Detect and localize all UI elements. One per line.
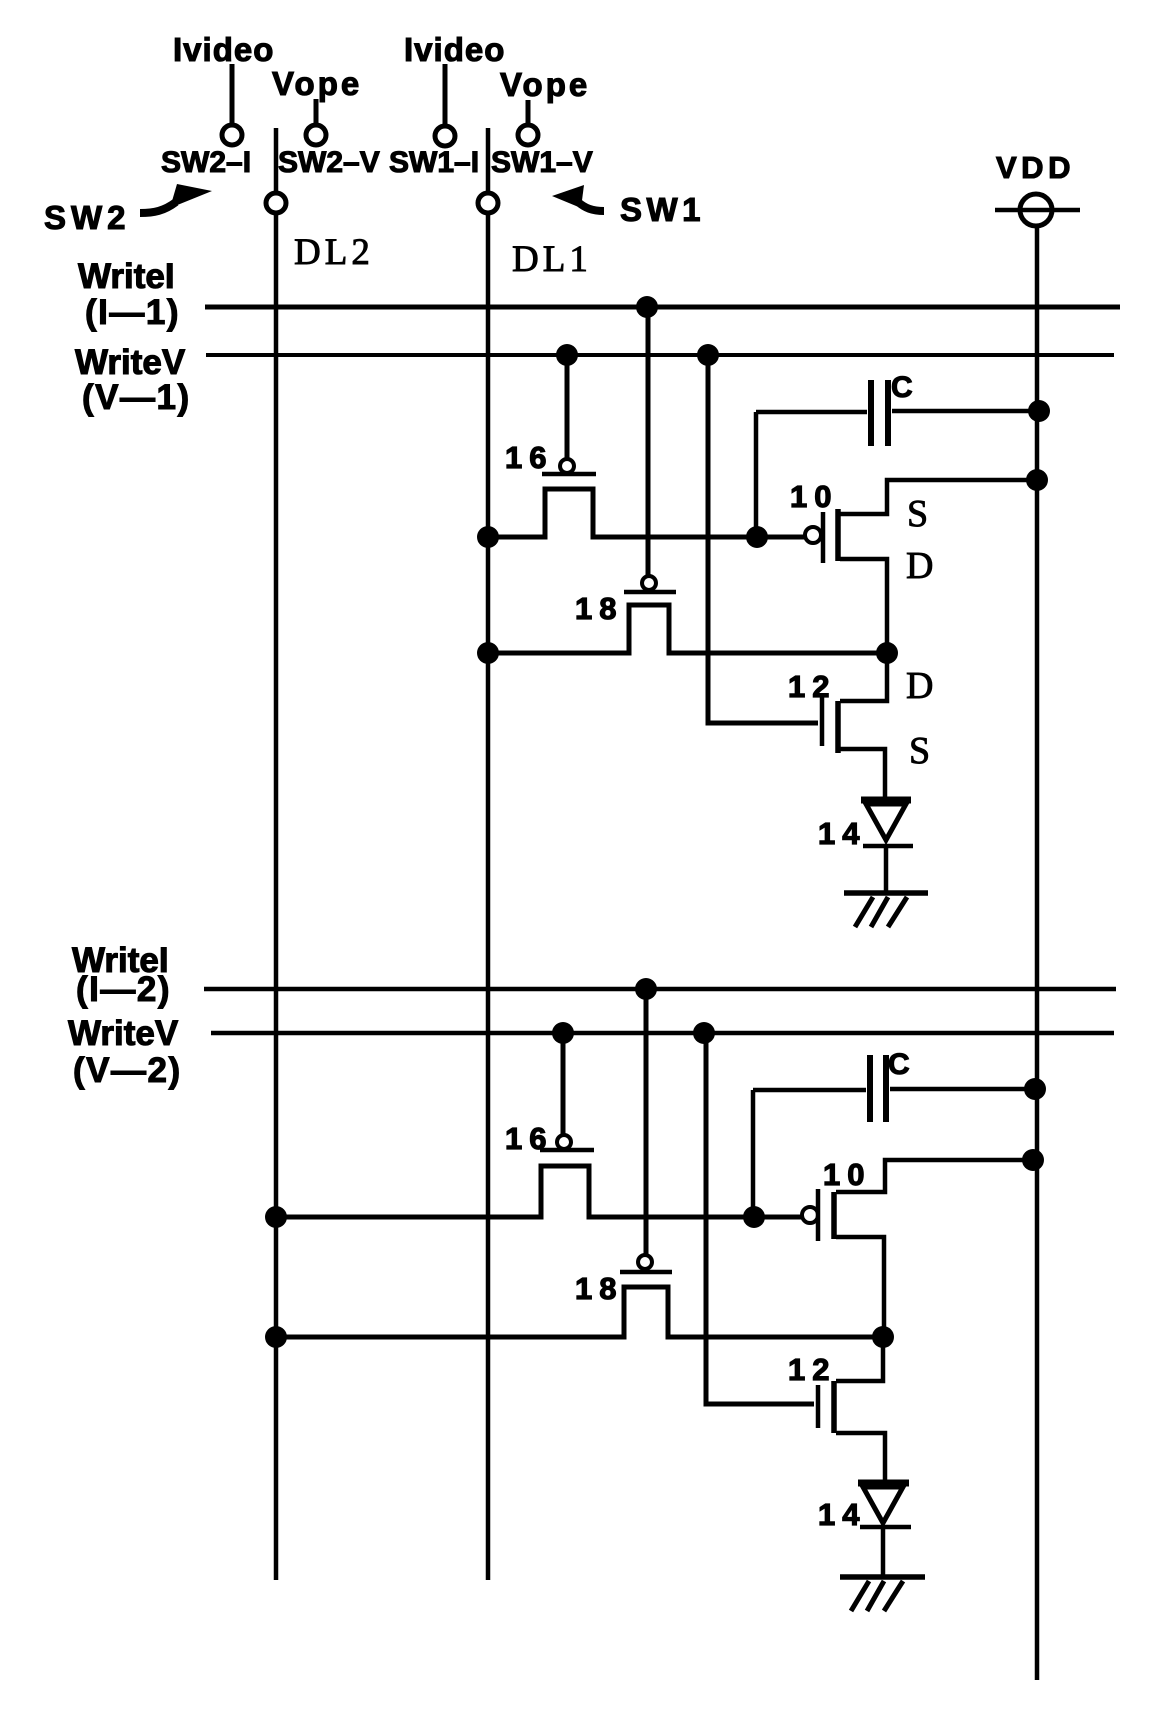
svg-text:WriteI: WriteI	[78, 257, 175, 296]
wire WriteV to gate of 12 (row1)	[708, 355, 818, 723]
wire drain of 10 down to node (row1)	[840, 559, 887, 653]
wire node B row2: DL2 through 18 channel to drain node	[277, 1287, 883, 1337]
transistor 16 (row2): gate circle	[557, 1135, 571, 1149]
wire gate stem of 18 (row1)	[646, 307, 651, 576]
svg-text:10: 10	[823, 1157, 871, 1192]
wire gate stem of 18 (row2)	[644, 989, 649, 1255]
capacitor C (row2): plates	[870, 1055, 886, 1122]
svg-text:Ivideo: Ivideo	[173, 31, 274, 68]
open circle on DL1	[478, 193, 498, 213]
svg-text:Vope: Vope	[500, 66, 590, 103]
bus WriteI (I-1)	[78, 257, 1120, 332]
node dot on DL2 (row2 lower)	[265, 1326, 287, 1348]
wire WriteV to gate of 12 (row2)	[706, 1033, 814, 1404]
capacitor C (row2): left lead	[753, 1090, 866, 1217]
wire drain of 12 (row1)	[840, 653, 887, 701]
diode 14 (row1): cathode bar	[863, 844, 913, 849]
capacitor C (row1): right lead to VDD	[892, 409, 1037, 414]
node dot cap to VDD rail (row2)	[1024, 1078, 1046, 1100]
capacitor C (row1): left lead	[756, 412, 867, 537]
svg-text:C: C	[891, 371, 913, 404]
svg-text:14: 14	[818, 1497, 866, 1532]
terminal Vope (right, above SW1-V)	[500, 66, 590, 145]
svg-text:D: D	[906, 545, 933, 587]
transistor 16 (row1): gate bar	[542, 472, 596, 477]
svg-text:S: S	[909, 730, 930, 772]
label SW2 with arrow	[44, 184, 212, 236]
svg-text:(I—2): (I—2)	[76, 970, 171, 1009]
svg-text:VDD: VDD	[996, 150, 1075, 185]
diode 14 (row1): anode bar	[861, 797, 911, 804]
svg-text:WriteV: WriteV	[75, 343, 186, 382]
capacitor C (row2): right lead to VDD	[890, 1087, 1037, 1092]
wire drain of 10 down to node (row2)	[836, 1237, 884, 1337]
transistor 10 (row2): gate bar	[816, 1189, 821, 1241]
node on WriteV(V-1) at vert to gate of 12	[697, 344, 719, 366]
wire drain of 12 (row2)	[836, 1337, 883, 1381]
node dot drain junction (row2)	[872, 1326, 894, 1348]
VDD rail (vertical)	[1035, 226, 1040, 1680]
svg-text:12: 12	[788, 669, 836, 704]
svg-text:WriteV: WriteV	[68, 1014, 179, 1053]
wire source of 10 to VDD (row1)	[840, 480, 1037, 514]
capacitor C (row1): plates	[871, 380, 888, 446]
svg-text:DL2: DL2	[294, 232, 374, 273]
wire cathode to ground (row2)	[881, 1527, 886, 1577]
data line DL1	[486, 128, 491, 1580]
ground (row2)	[840, 1577, 925, 1611]
svg-text:SW1–I: SW1–I	[389, 146, 479, 179]
transistor 10 (row1): gate bar	[821, 512, 826, 563]
node dot cap to VDD rail (row1)	[1028, 400, 1050, 422]
transistor 12 (row1): gate bar	[820, 697, 825, 746]
transistor 16 (row1): gate circle	[560, 459, 574, 473]
diode 14 (row2): anode bar	[858, 1480, 909, 1487]
transistor 12 (row2): channel bar	[831, 1381, 837, 1433]
wire gate stem of 16 (row1)	[565, 355, 570, 459]
svg-text:C: C	[888, 1048, 910, 1081]
node dot storage-cap tap (row2)	[743, 1206, 765, 1228]
svg-text:10: 10	[790, 479, 838, 514]
svg-text:18: 18	[575, 1271, 623, 1306]
node on WriteI(I-2) at gate line of 18	[635, 978, 657, 1000]
transistor 10 (row2, PMOS): gate bubble	[802, 1207, 818, 1223]
diode 14 (row2): cathode bar	[860, 1525, 911, 1530]
node dot source-10 to VDD rail (row1)	[1026, 469, 1048, 491]
svg-text:SW1–V: SW1–V	[491, 146, 593, 179]
node on WriteV(V-2) at gate stem of 16	[552, 1022, 574, 1044]
wire source of 12 to diode (row1)	[840, 749, 885, 797]
svg-text:SW2–V: SW2–V	[278, 146, 380, 179]
svg-text:18: 18	[575, 591, 623, 626]
transistor 10 (row2): channel bar	[831, 1192, 837, 1239]
svg-text:S: S	[907, 493, 928, 535]
svg-text:12: 12	[788, 1352, 836, 1387]
transistor 18 (row1): gate circle	[642, 576, 656, 590]
transistor 12 (row1): channel bar	[835, 701, 841, 753]
transistor 10 (row1, PMOS): gate bubble	[805, 527, 821, 543]
svg-text:14: 14	[818, 816, 866, 851]
transistor 18 (row1): gate bar	[624, 590, 676, 595]
terminal Ivideo (right, above SW1-I)	[404, 31, 505, 146]
svg-text:16: 16	[505, 440, 553, 475]
node on WriteV(V-1) at gate stem of 16	[556, 344, 578, 366]
bus WriteV (V-2)	[68, 1014, 1114, 1090]
node dot drain junction (row1)	[876, 642, 898, 664]
bus WriteI (I-2)	[72, 941, 1116, 1009]
node dot on DL1 (row1 lower)	[477, 642, 499, 664]
diode 14 (row2): triangle	[863, 1487, 903, 1523]
transistor 12 (row2): gate bar	[816, 1385, 821, 1428]
node dot on DL2 (row2 upper)	[265, 1206, 287, 1228]
wire cathode to ground (row1)	[884, 846, 889, 893]
svg-text:(I—1): (I—1)	[85, 293, 180, 332]
transistor 10 (row1): channel bar	[835, 509, 841, 561]
open circle on DL2	[266, 193, 286, 213]
ground (row1)	[844, 893, 928, 927]
svg-text:Ivideo: Ivideo	[404, 31, 505, 68]
terminal Ivideo (left, above SW2-I)	[173, 31, 274, 145]
svg-text:DL1: DL1	[512, 239, 592, 280]
svg-text:D: D	[906, 665, 933, 707]
svg-text:SW2: SW2	[44, 199, 131, 236]
bus WriteV (V-1)	[75, 343, 1114, 417]
power VDD terminal	[995, 150, 1080, 226]
svg-text:SW2–I: SW2–I	[161, 146, 251, 179]
wire gate stem of 16 (row2)	[561, 1033, 566, 1135]
transistor 18 (row2): gate circle	[638, 1255, 652, 1269]
wire source of 12 to diode (row2)	[836, 1433, 885, 1480]
label SW1 with arrow	[552, 185, 705, 228]
terminal Vope (left, above SW2-V)	[272, 65, 362, 145]
wire node B row1: DL1 through 18 channel to drain node	[489, 605, 887, 653]
wire source of 10 to VDD (row2)	[836, 1160, 1037, 1192]
svg-text:(V—1): (V—1)	[82, 378, 191, 417]
transistor 16 (row2): gate bar	[540, 1148, 594, 1153]
svg-text:16: 16	[505, 1121, 553, 1156]
node on WriteI(I-1) at gate line of 18	[636, 296, 658, 318]
node dot storage-cap tap (row1)	[746, 526, 768, 548]
node on WriteV(V-2) at vert to gate of 12	[693, 1022, 715, 1044]
wire node A row2: DL2 through transistor 16 channel to gate of 10	[277, 1166, 802, 1217]
diode 14 (row1): triangle	[866, 804, 906, 840]
node dot source-10 to VDD rail (row2)	[1022, 1149, 1044, 1171]
data line DL2	[274, 128, 279, 1580]
svg-text:SW1: SW1	[620, 191, 705, 228]
svg-text:(V—2): (V—2)	[73, 1051, 182, 1090]
transistor 18 (row2): gate bar	[620, 1270, 672, 1275]
wire node A row1: DL1 through transistor 16 channel to gate of 10	[489, 489, 805, 537]
svg-text:Vope: Vope	[272, 65, 362, 102]
node dot on DL1 (row1 upper)	[477, 526, 499, 548]
